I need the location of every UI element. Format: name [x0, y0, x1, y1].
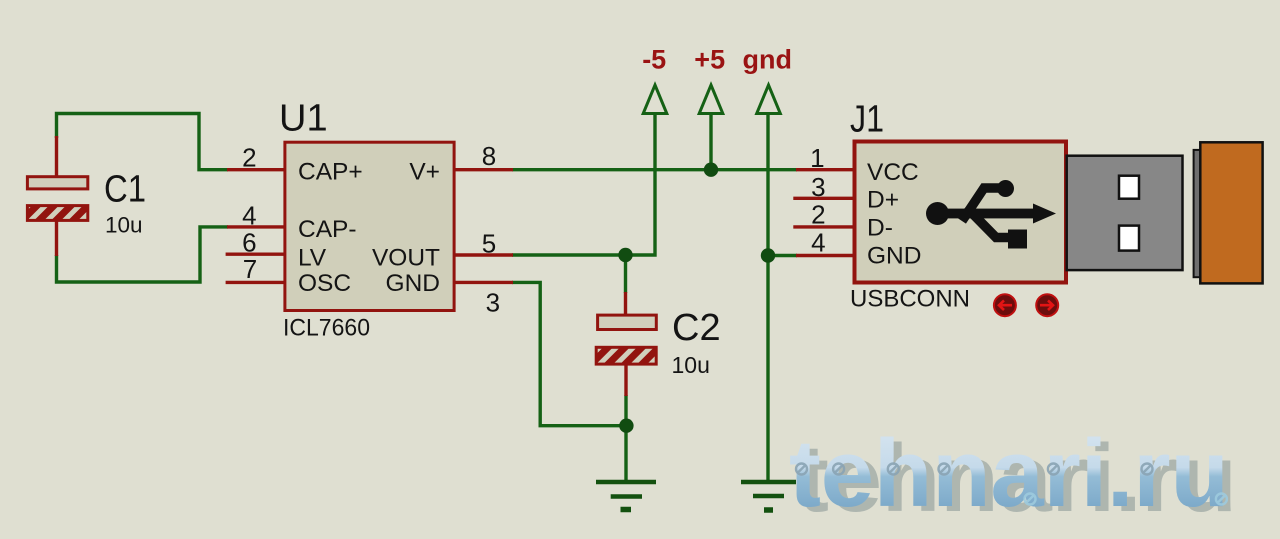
svg-text:gnd: gnd: [743, 44, 792, 74]
svg-text:ICL7660: ICL7660: [283, 315, 370, 342]
svg-text:5: 5: [482, 228, 496, 258]
svg-text:VOUT: VOUT: [372, 244, 440, 271]
svg-text:D-: D-: [867, 214, 893, 241]
svg-text:C1: C1: [104, 169, 146, 211]
svg-text:+5: +5: [694, 44, 725, 74]
svg-text:10u: 10u: [672, 352, 710, 378]
svg-text:U1: U1: [279, 98, 328, 140]
svg-text:4: 4: [811, 228, 825, 258]
svg-text:1: 1: [810, 143, 824, 173]
svg-text:LV: LV: [298, 244, 327, 271]
svg-text:CAP+: CAP+: [298, 159, 363, 186]
svg-text:6: 6: [242, 227, 256, 257]
svg-text:-5: -5: [642, 44, 666, 74]
svg-text:tehnari.ru: tehnari.ru: [789, 420, 1229, 527]
svg-text:2: 2: [242, 143, 256, 173]
svg-text:V+: V+: [409, 159, 440, 186]
svg-text:8: 8: [482, 141, 496, 171]
svg-text:OSC: OSC: [298, 270, 351, 297]
svg-text:3: 3: [811, 172, 825, 202]
svg-text:2: 2: [811, 200, 825, 230]
svg-text:VCC: VCC: [867, 159, 919, 186]
svg-text:10u: 10u: [105, 213, 143, 238]
svg-text:7: 7: [243, 254, 257, 284]
svg-text:C2: C2: [672, 307, 721, 349]
svg-text:4: 4: [242, 201, 256, 231]
svg-text:GND: GND: [386, 270, 440, 297]
svg-text:3: 3: [486, 288, 500, 318]
svg-text:J1: J1: [850, 99, 884, 141]
svg-text:GND: GND: [867, 243, 921, 270]
svg-text:CAP-: CAP-: [298, 216, 357, 243]
svg-text:USBCONN: USBCONN: [850, 286, 970, 313]
svg-text:D+: D+: [867, 187, 899, 214]
